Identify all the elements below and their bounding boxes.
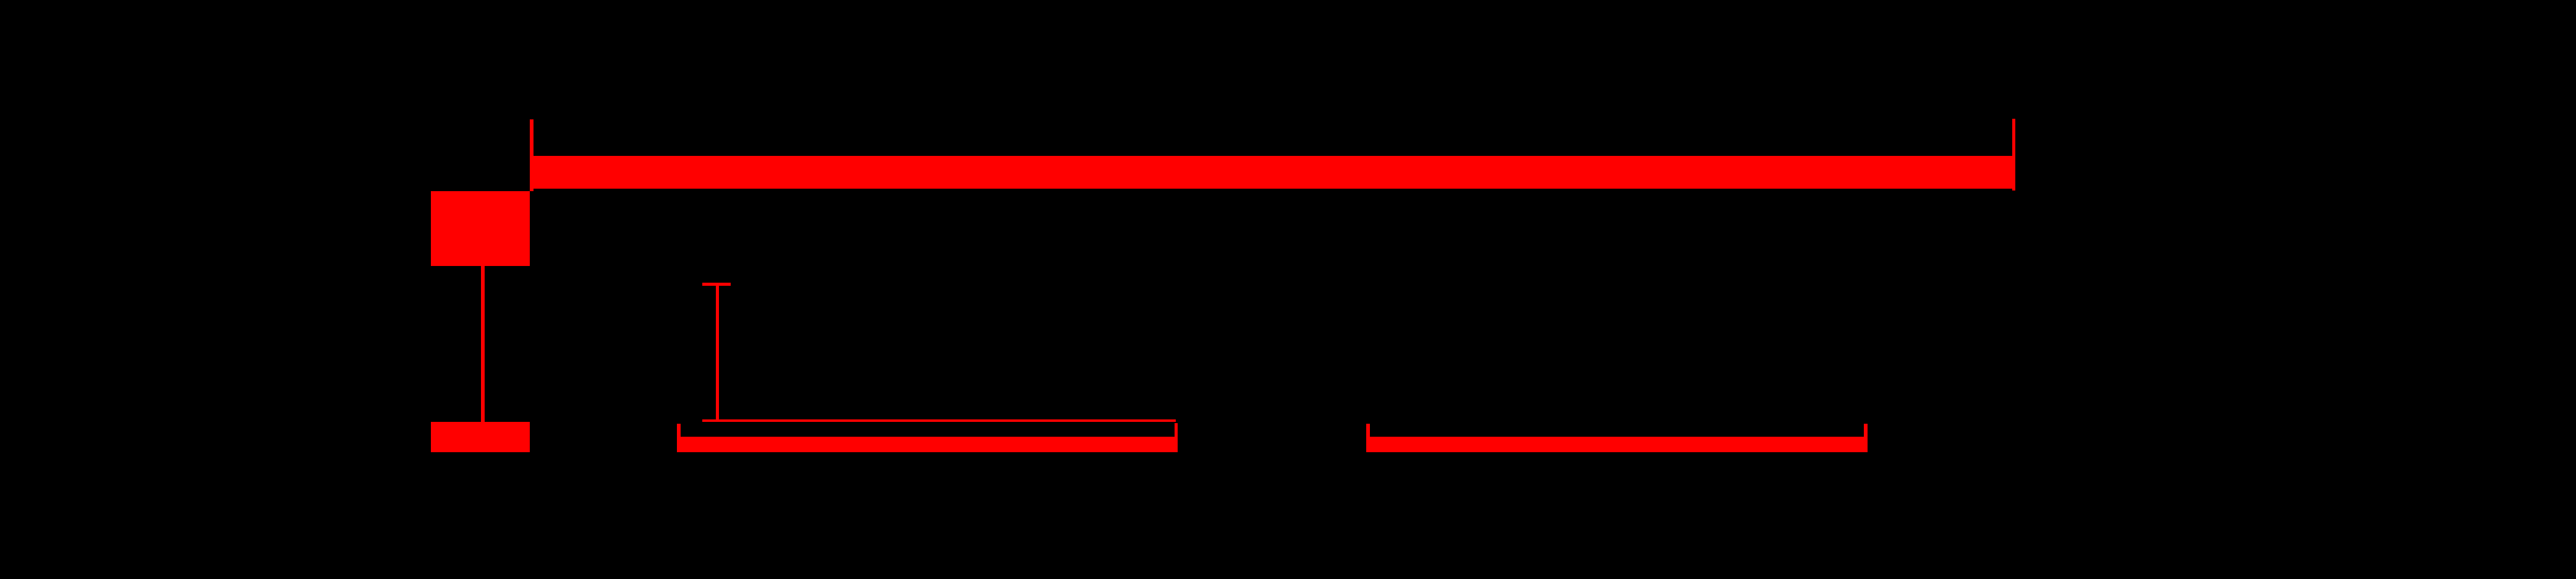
T-marker cap (702, 283, 731, 286)
summary bracket 1 left tick (677, 424, 681, 452)
small bottom bar under square (431, 422, 530, 452)
summary bracket 2 bar (1366, 437, 1868, 452)
task bar 1 (530, 156, 2012, 189)
task bar 1 start tick (530, 119, 533, 191)
connector stem below square (481, 266, 485, 422)
T-marker stem (716, 286, 719, 419)
summary bracket 1 right tick (1175, 423, 1178, 452)
task bar 1 end tick (2012, 119, 2016, 191)
summary bracket 1 bar (677, 437, 1178, 452)
task block (square) (431, 191, 530, 266)
thin horizontal line (702, 419, 1176, 422)
summary bracket 2 left tick (1366, 424, 1370, 452)
summary bracket 2 right tick (1864, 424, 1868, 452)
